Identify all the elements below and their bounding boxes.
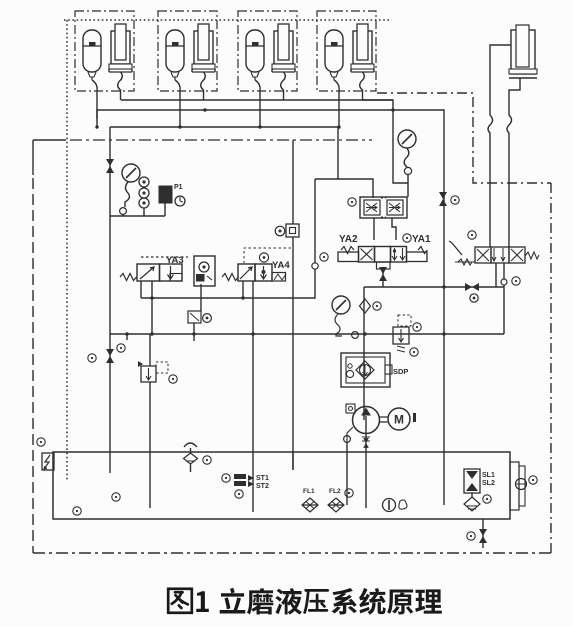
junction on y110 at x393 <box>391 108 394 111</box>
wire: unit3 accumulator drop <box>255 80 260 127</box>
svg-text:SL2: SL2 <box>482 480 495 487</box>
tag circle by breather <box>203 456 211 464</box>
unit 4 accumulator + cylinder <box>325 24 374 80</box>
tag circle tank left <box>73 507 81 515</box>
heater with lightning <box>42 453 54 470</box>
svg-text:P1: P1 <box>174 184 183 191</box>
wire: cylinder left port line with hose break <box>488 45 511 247</box>
tag circle right of check <box>373 302 381 310</box>
numbered tag circle near riser <box>88 354 96 362</box>
drain line below tank with valve <box>482 519 484 548</box>
tank pipes inside: x110 <box>109 452 111 473</box>
junction dots on y298 <box>150 296 153 299</box>
junction on y110 at x205 <box>203 108 206 111</box>
tag circle by SL diamond <box>483 495 491 503</box>
tag circle left of pilot block <box>348 198 356 206</box>
tank pipe x443 end <box>443 452 445 505</box>
pilot dashed from node box to YA4 <box>244 240 293 263</box>
solenoid valve YA2/YA1 (4/3 directional main) <box>338 247 428 270</box>
wire: drain header y287 <box>364 287 496 420</box>
wire: module port down <box>200 284 202 311</box>
test point circle under left gauge <box>120 208 127 215</box>
tag circle left of ST <box>222 474 230 482</box>
tag circle tank mid-left <box>112 493 120 501</box>
boundary: dash-dot horizontal pump-station top edge <box>70 139 372 141</box>
unit 3 accumulator + cylinder <box>246 24 295 80</box>
wire: manual valve drain down <box>495 263 497 287</box>
wire: module to bus <box>193 323 195 334</box>
tank pipe x366 suction strainer <box>365 452 367 508</box>
svg-text:YA4: YA4 <box>272 260 290 271</box>
boundary: outer dash-dot frame bottom <box>33 552 551 554</box>
unit 4 enclosure (dash-dot box) <box>317 11 376 91</box>
tag circle by FL2 <box>345 489 353 497</box>
solenoid valve YA3 (2/2 directional) <box>120 264 182 281</box>
tag circle above manual valve <box>468 231 476 239</box>
svg-text:M: M <box>394 413 404 427</box>
coupling shaft pump-motor <box>380 417 388 422</box>
thermometer diamond below SL <box>464 497 480 511</box>
unit 1 accumulator + cylinder <box>83 24 132 80</box>
svg-text:SL1: SL1 <box>482 472 495 479</box>
wire: unit1 accumulator drop <box>92 80 97 127</box>
tank pipe x347 suction <box>346 442 348 505</box>
svg-text:ST2: ST2 <box>256 483 269 490</box>
wire: YA3 drain to bus <box>151 298 153 334</box>
shut-off valve on drain header <box>465 283 479 291</box>
test point circle below gauge <box>404 167 411 174</box>
tag circle right of x443 valve <box>451 196 459 204</box>
small circle inside block <box>346 370 353 377</box>
wire: x253 column to tank <box>252 334 254 512</box>
wire: x315 riser from pi-line to y298 <box>253 179 315 298</box>
tank pipe x293 end <box>292 452 294 470</box>
level gauge SL1/SL2 <box>464 469 480 493</box>
wire: x127 stub <box>126 334 128 340</box>
unit 1 enclosure (dash-dot box) <box>75 11 134 91</box>
wire: pump gauge wavy tail <box>335 314 342 336</box>
wire: unit4 cylinder hose drop <box>360 72 393 100</box>
wire: unit2 accumulator drop <box>175 80 180 127</box>
junction dots on return bus <box>125 332 128 335</box>
tag circle right of indicator <box>529 476 537 484</box>
solenoid valve YA4 (2/2 directional) <box>222 264 286 281</box>
unit 2 enclosure (dash-dot box) <box>158 11 217 91</box>
svg-text:FL2: FL2 <box>329 488 341 495</box>
check module below YA3 <box>188 311 201 323</box>
wire: y127 to left riser <box>109 127 111 452</box>
boundary: outer dash-dot frame left side <box>33 140 66 175</box>
check valve on pump line x365 <box>360 299 371 313</box>
tag circle right of relief <box>413 323 421 331</box>
wire: x194 column to tank? short stub <box>193 334 195 341</box>
unit 2 accumulator + cylinder <box>166 24 215 80</box>
pump (circle with triangle) <box>353 407 380 434</box>
svg-text:YA2: YA2 <box>339 234 358 245</box>
standalone cylinder top right <box>509 25 537 78</box>
tag circle above heater <box>37 438 45 446</box>
wire: YA3 work ports down <box>141 281 217 298</box>
tag square by pump <box>346 404 355 413</box>
tag circle above YA4 <box>259 253 268 262</box>
numbered tag circle by lower valve <box>117 344 125 352</box>
tag circle right of x315 <box>320 253 328 261</box>
unit 3 enclosure (dash-dot box) <box>238 11 297 91</box>
thermometer in tank <box>383 499 396 512</box>
wire: unit3 cylinder hose drop <box>281 72 286 100</box>
wire: riser x293 down to tank <box>292 237 294 470</box>
junction dots on y127 bus <box>95 125 98 128</box>
junction circle and tag at x504 <box>501 279 507 285</box>
oil tank <box>53 452 510 519</box>
pressure gauge on riser x409 <box>398 130 416 148</box>
wire: YA4 ports down <box>217 281 253 334</box>
wire: riser x293 upper from boundary <box>292 140 294 224</box>
tag circle left of suction <box>344 436 351 443</box>
junction circle on x315 <box>312 263 318 269</box>
wire: gauge wavy tail <box>404 148 409 167</box>
tag circle below ST <box>235 490 243 498</box>
svg-text:ST1: ST1 <box>256 475 269 482</box>
tag circle by drain valve <box>467 532 475 540</box>
test point circle on return bus <box>352 332 359 339</box>
pilot-operated check valve block <box>360 197 407 218</box>
wire: cylinder bottom port line with hose break <box>507 78 520 247</box>
wire: drain header corner down to main return bus <box>503 285 505 334</box>
node box on riser x293 <box>275 226 285 236</box>
boundary: outer dash-dot frame right side <box>550 183 552 553</box>
pressure gauge left station <box>122 164 140 182</box>
boundary: dotted horizontal line top <box>64 19 390 21</box>
black mark right of motor <box>413 413 416 422</box>
tag circle below relief <box>410 348 418 356</box>
wire: unit2 cylinder hose drop <box>201 72 206 100</box>
filter/flow-meter block (double border) <box>341 353 390 387</box>
wire: YA2 valve tank port down with shutoff <box>382 269 384 287</box>
pilot dashed line above YA3 <box>141 256 188 258</box>
svg-text:YA3: YA3 <box>166 255 184 266</box>
relief valve with vent (left column x150) <box>141 366 156 382</box>
system relief valve at x400 <box>393 315 411 352</box>
tank pipe x150 <box>149 452 151 508</box>
svg-text:FL1: FL1 <box>303 488 315 495</box>
breather / filler <box>184 443 197 447</box>
wire: gauge station drops to manifold line <box>110 203 165 216</box>
bus: main return line y=334 <box>110 333 504 335</box>
wire: unit4 accumulator drop <box>334 80 339 127</box>
wire: pi-line feeding pilot check block <box>315 179 373 198</box>
shut-off valve lower on riser x110 <box>106 349 114 363</box>
wire: pump case drain <box>347 427 353 442</box>
wire: x150 column bus to tank <box>149 334 151 452</box>
tag circle before YA1 <box>403 234 411 242</box>
shut-off valve on left riser x110 <box>106 159 114 173</box>
boundary: dash-dot top-right enclosure <box>377 93 551 183</box>
side level indicator on tank right <box>510 462 519 510</box>
motor M <box>388 408 410 430</box>
pressure switch P1 (black body) <box>159 186 172 203</box>
flow meter diamond <box>356 361 374 379</box>
wire: riser x393 down to pilot gauge branch <box>393 110 408 197</box>
caption text: 图1 立磨液压系统原理 <box>168 588 442 615</box>
boundary: dotted vertical line left <box>66 20 68 480</box>
shut-off valve on riser x443 top <box>439 192 447 206</box>
wire: pilot block down-ports into YA2/YA1 valve <box>374 218 396 240</box>
tag circle below drain shutoff <box>470 294 478 302</box>
bus: accumulator header y=110 <box>97 110 444 452</box>
wire: left gauge wavy tail <box>125 182 129 207</box>
wire: pump suction down to tank with strainer marks <box>365 433 367 452</box>
level switch ST1/ST2 <box>234 474 246 486</box>
clock-style indicator circle <box>175 196 185 206</box>
bus: cylinder header y=100 <box>121 100 393 110</box>
block side symbols <box>385 365 392 374</box>
tag circle by relief valve <box>169 375 177 383</box>
svg-text:SDP: SDP <box>393 367 408 376</box>
svg-text:YA1: YA1 <box>412 234 431 245</box>
pressure gauge pump outlet <box>332 296 350 314</box>
wire: unit1 cylinder hose drop <box>118 72 123 100</box>
manual directional valve (right) <box>449 241 539 265</box>
minimess coupling circles x144 <box>139 177 149 187</box>
bus: lower header y=127 <box>110 127 338 179</box>
throttle-check module beside YA3 <box>194 256 215 286</box>
